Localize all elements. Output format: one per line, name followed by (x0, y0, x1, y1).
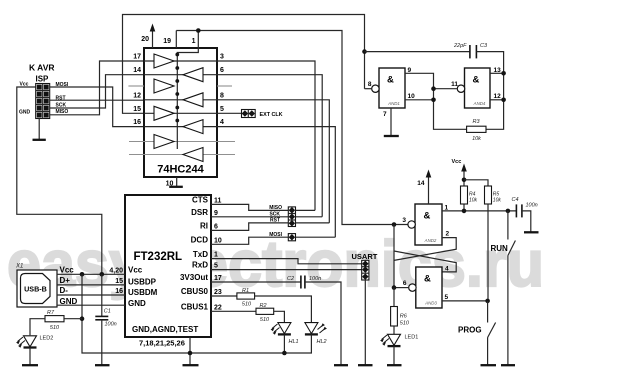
junction pin9/pin11 (431, 86, 436, 91)
pin number 17 (214, 275, 222, 282)
pin label GND (128, 299, 146, 308)
junction pin13 (501, 71, 506, 76)
pin number 6 (220, 67, 224, 74)
wire MISO jumper to pin3 riser (296, 209, 316, 211)
svg-text:RST: RST (270, 218, 280, 224)
svg-text:D-: D- (60, 286, 69, 295)
wire CBUS0 to R1 (211, 295, 237, 297)
svg-text:RUN: RUN (491, 244, 509, 253)
svg-text:5: 5 (214, 262, 218, 269)
svg-text:9: 9 (214, 210, 218, 217)
svg-text:22: 22 (214, 304, 222, 311)
label R7 (47, 310, 55, 316)
label 10k (469, 197, 478, 203)
pin label RI (200, 222, 208, 231)
svg-text:R3: R3 (472, 119, 480, 125)
wire AND3 pin6 (394, 287, 409, 289)
svg-text:10: 10 (214, 237, 222, 244)
svg-text:17: 17 (214, 275, 222, 282)
jumper EXT CLK (242, 110, 256, 118)
capacitor C2 (301, 276, 305, 289)
svg-text:GND: GND (128, 299, 146, 308)
pin number 22 (214, 304, 222, 311)
pin number 3 (402, 217, 406, 224)
wire 74HC244 row pin14-pin6 (144, 75, 322, 217)
power Vcc arrow pin14 (426, 170, 432, 205)
svg-text:Vcc: Vcc (60, 265, 75, 274)
pin number 17 (133, 54, 141, 61)
svg-text:100n: 100n (526, 202, 538, 208)
wire ISP Vcc to C1 node (17, 87, 102, 274)
wire MOSI jumper to pin4 riser (296, 236, 336, 238)
label GND,AGND,TEST (132, 325, 198, 334)
wire TxD to USART (211, 259, 362, 264)
wire FT232 gnd pin to bus and ground (183, 337, 199, 365)
svg-text:AND1: AND1 (387, 101, 400, 106)
pin number 5 (214, 262, 218, 269)
IC U1 74HC244 body (144, 48, 217, 177)
node RST label (56, 95, 66, 101)
label RUN (491, 244, 509, 253)
wire RxD to USART (211, 269, 362, 271)
junction Vcc/R7 riser (80, 272, 85, 277)
svg-text:CTS: CTS (192, 196, 209, 205)
svg-text:FT232RL: FT232RL (134, 251, 183, 263)
pin number 9 (214, 210, 218, 217)
svg-text:&: & (387, 75, 394, 86)
pin number 20 (141, 36, 149, 43)
LED HL1 (271, 323, 291, 353)
label R4 (469, 191, 476, 197)
svg-text:USBDP: USBDP (128, 277, 157, 286)
pin label D- (60, 286, 69, 295)
pin number 1 (214, 252, 218, 259)
node K AVR label (29, 63, 55, 73)
pin number 12 (133, 92, 141, 99)
junction AND2 pin3 node (392, 222, 397, 227)
label & of AND4 (473, 75, 480, 86)
pin number 8 (368, 81, 372, 88)
capacitor C1 (95, 274, 108, 365)
pin number 6 (214, 223, 218, 230)
svg-text:C3: C3 (480, 43, 488, 49)
pin number 19 (163, 38, 171, 45)
svg-text:100n: 100n (105, 322, 117, 328)
svg-text:510: 510 (242, 302, 252, 308)
pin label Vcc (60, 265, 75, 274)
label USART (352, 252, 378, 261)
wire NC row bottom1 (129, 141, 235, 143)
capacitor C3 (470, 45, 477, 58)
gate U3.3 AND3 body (409, 267, 442, 308)
svg-text:USBDM: USBDM (128, 288, 158, 297)
resistor R5 (485, 186, 492, 204)
wire pin8 node to C3 (365, 51, 470, 53)
wire ground bus bottom (82, 319, 311, 353)
wire NC row right (217, 85, 232, 87)
ground LED1 (387, 364, 402, 366)
svg-text:USART: USART (352, 252, 378, 261)
buffer A4 (154, 135, 174, 149)
pin label CBUS1 (181, 303, 209, 312)
wire USB D- to USBDM (57, 294, 125, 296)
svg-text:100n: 100n (309, 276, 321, 282)
svg-text:&: & (424, 274, 431, 285)
LED LED1 (380, 334, 400, 365)
svg-text:AND4: AND4 (473, 101, 486, 106)
wire AND2 pin2 to cross (394, 238, 456, 261)
IC U2 FT232RL body (125, 195, 211, 337)
wire NC row left (128, 85, 144, 87)
pin number 1 (445, 205, 449, 212)
wire SCK jumper to pin6 riser (296, 216, 323, 218)
svg-text:3: 3 (402, 217, 406, 224)
pin number 11 (451, 81, 458, 88)
power Vcc arrow pin20 (150, 24, 156, 49)
svg-text:C2: C2 (287, 276, 294, 282)
svg-text:5: 5 (445, 294, 449, 301)
resistor R4 (461, 186, 468, 204)
label R2 (259, 303, 266, 309)
pin number 14 (133, 67, 141, 74)
svg-text:8: 8 (220, 92, 224, 99)
wire CTS to MISO jumper (211, 204, 288, 210)
svg-text:R6: R6 (400, 314, 408, 320)
svg-text:DSR: DSR (191, 208, 208, 217)
wire ISP SCK to 74HC244 pin14 (50, 75, 144, 108)
svg-text:14: 14 (417, 180, 425, 187)
svg-text:10k: 10k (472, 136, 481, 142)
svg-text:6: 6 (220, 67, 224, 74)
svg-text:11: 11 (214, 197, 222, 204)
wire RI to RST jumper (211, 223, 288, 231)
pin number 5 (220, 106, 224, 113)
junction pin6 node (392, 285, 397, 290)
pin label CTS (192, 196, 209, 205)
label AND1 (387, 101, 400, 106)
pin number 6 (403, 280, 407, 287)
ground LED2 (22, 364, 38, 366)
svg-text:Vcc: Vcc (452, 159, 462, 165)
pin number 4 (220, 119, 224, 126)
label EXT CLK (260, 112, 283, 118)
pin number 9 (408, 67, 412, 74)
wire C3 to AND4 pin13 (476, 52, 503, 130)
wire AND3 pin5 to PROG node (442, 300, 488, 302)
label 7,18,21,25,26 (139, 339, 185, 348)
svg-text:12: 12 (133, 92, 141, 99)
wire CBUS1 to R2 (211, 310, 256, 312)
node MOSI label (269, 232, 282, 238)
svg-text:23: 23 (214, 289, 222, 296)
wire ISP MOSI to 74HC244 pin16 (50, 87, 144, 127)
buffer B3 (183, 120, 203, 134)
resistor R3 (467, 126, 486, 132)
wire USB D+ to USBDP (57, 284, 125, 286)
wire DCD to MOSI jumper (211, 237, 288, 244)
svg-text:7,18,21,25,26: 7,18,21,25,26 (139, 339, 185, 348)
pin number 10 (214, 237, 222, 244)
wire AND1 pin10 (405, 99, 434, 101)
ground AND1 pin7 (384, 108, 399, 136)
pin number 10 and ground (166, 177, 183, 188)
svg-text:EXT CLK: EXT CLK (260, 112, 283, 118)
pin label DSR (191, 208, 208, 217)
label 510 (400, 321, 410, 327)
wire pin19 stub (175, 31, 177, 49)
svg-text:RI: RI (200, 222, 208, 231)
pin number 14 (417, 180, 425, 187)
node Vcc label at ISP (20, 82, 29, 88)
wire R1 to HL2 (255, 296, 312, 322)
svg-text:11: 11 (451, 81, 458, 88)
svg-text:1: 1 (214, 252, 218, 259)
capacitor C4 (516, 204, 522, 217)
svg-text:510: 510 (260, 317, 270, 323)
wire ISP MISO to 74HC244 pin17 (50, 61, 144, 115)
wire 74HC244 row pin16-pin4 (144, 127, 335, 238)
pin number 15 (133, 106, 141, 113)
svg-text:DCD: DCD (191, 236, 209, 245)
junction RUN pin1 wire (506, 209, 511, 214)
label 510 (50, 325, 60, 331)
svg-text:LED2: LED2 (40, 336, 54, 342)
wire AND4 pin12 stub (490, 99, 504, 101)
svg-text:C1: C1 (104, 309, 111, 315)
pin label DCD (191, 236, 209, 245)
ground RUN (501, 364, 515, 366)
gate U3.2 AND2 body (408, 204, 442, 245)
svg-text:CBUS0: CBUS0 (181, 287, 209, 296)
pin number 7 (383, 111, 387, 118)
svg-text:USB-B: USB-B (24, 285, 47, 294)
junction Vcc R4/R5 (462, 178, 467, 183)
svg-text:LED1: LED1 (405, 335, 419, 341)
pin label 3V3Out (180, 273, 208, 282)
wire latch cross vertical (393, 225, 395, 288)
ground C2 (334, 364, 348, 366)
label USB-B (24, 285, 47, 294)
label AND3 (424, 301, 437, 306)
pin number 11 (214, 197, 222, 204)
svg-text:7: 7 (383, 111, 387, 118)
svg-text:3: 3 (220, 54, 224, 61)
svg-text:510: 510 (50, 325, 60, 331)
svg-text:8: 8 (368, 81, 372, 88)
svg-text:K AVR: K AVR (29, 63, 55, 73)
label C3 (480, 43, 488, 49)
svg-text:22pF: 22pF (453, 43, 467, 49)
label R6 (400, 314, 408, 320)
pin label RxD (192, 261, 208, 270)
connector X1 USB-B body (17, 270, 57, 307)
svg-text:GND: GND (19, 110, 31, 116)
svg-text:15: 15 (115, 278, 123, 285)
svg-text:4: 4 (445, 265, 449, 272)
pin label Vcc (128, 266, 143, 275)
wire USB Vcc to FT232 (57, 273, 125, 275)
svg-text:ISP: ISP (36, 75, 50, 84)
label HL1 (289, 339, 299, 345)
jumper MOSI block (288, 234, 295, 241)
pin label TxD (193, 250, 208, 259)
junction pin10/R3 (431, 98, 436, 103)
wire 74HC244 internal enable chain (175, 48, 198, 149)
switch PROG (488, 301, 496, 365)
svg-text:AND3: AND3 (424, 301, 437, 306)
label & of AND1 (387, 75, 394, 86)
pin label CBUS0 (181, 287, 209, 296)
switch RUN (508, 211, 516, 365)
power Vcc arrow main (452, 159, 467, 211)
label 100n (526, 202, 538, 208)
wire RST jumper to pin8 riser (296, 222, 330, 224)
wire DSR to SCK jumper (211, 216, 288, 218)
junction PROG pin5 (485, 299, 490, 304)
label LED2 (40, 336, 54, 342)
buffer A1 (154, 54, 174, 68)
junction Vcc/C1 riser (100, 272, 105, 277)
wire USB GND to FT232 GND (57, 304, 125, 306)
gate U3.4 AND4 body (457, 68, 490, 108)
svg-text:10: 10 (408, 93, 416, 100)
connector USART header (362, 260, 369, 280)
svg-text:&: & (424, 211, 431, 222)
svg-text:D+: D+ (60, 276, 71, 285)
svg-text:16: 16 (133, 119, 141, 126)
pin number 1 (192, 38, 196, 45)
connector ISP header (36, 84, 50, 119)
wire AND4 pin11 (434, 88, 458, 90)
label 100n (105, 322, 117, 328)
label LED1 (405, 335, 419, 341)
resistor R1 (237, 293, 255, 299)
wire 74HC244 row pin17-pin3 (144, 61, 315, 210)
label R3 (472, 119, 480, 125)
node SCK label (56, 103, 67, 109)
pin number 5 (445, 294, 449, 301)
label PROG (458, 326, 482, 335)
gate U3.1 AND1 body (372, 68, 405, 108)
svg-text:74HC244: 74HC244 (157, 164, 204, 176)
pin label GND (60, 297, 78, 306)
resistor R6 (391, 288, 398, 334)
pin number 2 (446, 231, 450, 238)
svg-text:R2: R2 (259, 303, 266, 309)
wire 74HC244 row pin15-pin5 to EXT CLK (144, 112, 242, 114)
node GND label at ISP (19, 110, 31, 116)
svg-text:X1: X1 (15, 264, 23, 270)
ground C4 (524, 231, 539, 233)
label 74HC244 (157, 164, 204, 176)
pin number 4 (445, 265, 449, 272)
wire 74HC244 row pin12-pin8 (144, 100, 329, 223)
wire R5 to pin5 node (487, 204, 489, 301)
svg-text:2: 2 (446, 231, 450, 238)
buffer B4 (183, 148, 203, 162)
node RST label (270, 218, 280, 224)
label 100n (309, 276, 321, 282)
LED LED2 (16, 336, 36, 365)
svg-text:C4: C4 (512, 197, 519, 203)
label C4 (512, 197, 519, 203)
svg-text:6: 6 (214, 223, 218, 230)
svg-text:CBUS1: CBUS1 (181, 303, 209, 312)
junction pin12 (501, 98, 506, 103)
pin number 13 (494, 67, 502, 74)
ground C1 (95, 364, 110, 366)
wire AND2 pin1 to R4/RUN/C4 (442, 210, 516, 212)
buffer B1 (183, 68, 203, 82)
pin number 8 (220, 92, 224, 99)
svg-text:5: 5 (220, 106, 224, 113)
svg-text:20: 20 (141, 36, 149, 43)
resistor R2 (256, 308, 274, 314)
svg-text:12: 12 (494, 93, 502, 100)
label 10k (472, 136, 481, 142)
svg-text:10k: 10k (469, 197, 478, 203)
connector ISP label (36, 75, 50, 84)
label R5 (493, 191, 500, 197)
node MISO label (269, 205, 282, 211)
pin number 10 (408, 93, 416, 100)
wire ISP RST to 74HC244 pin12 (50, 99, 144, 101)
svg-text:MOSI: MOSI (269, 232, 282, 238)
pin number 12 (494, 93, 502, 100)
label & of AND3 (424, 274, 431, 285)
svg-text:HL2: HL2 (317, 339, 327, 345)
junction pin1 OE (196, 28, 201, 33)
pin number 4,20 (109, 267, 123, 274)
svg-text:510: 510 (400, 321, 410, 327)
wire AND3 pin4 to cross (394, 251, 456, 272)
svg-text:PROG: PROG (458, 326, 482, 335)
pin label USBDP (128, 277, 157, 286)
pin label USBDM (128, 288, 158, 297)
svg-text:10k: 10k (493, 197, 502, 203)
wire R2 to HL1 (274, 311, 285, 322)
svg-text:&: & (473, 75, 480, 86)
wire top bus from pin15 row to oscillator (123, 15, 365, 114)
node MOSI label (56, 82, 69, 88)
ground ISP (33, 119, 46, 140)
junction R4 pin1 wire (462, 209, 467, 214)
buffer A3 (154, 106, 174, 120)
junction HL1 bus (282, 351, 287, 356)
svg-text:19: 19 (163, 38, 171, 45)
pin number 15 (115, 278, 123, 285)
wire OE bus pin19/pin1 to latch output (176, 31, 410, 225)
wire AND1 pin8 (365, 88, 373, 90)
svg-text:Vcc: Vcc (128, 266, 143, 275)
svg-text:4: 4 (220, 119, 224, 126)
svg-text:4,20: 4,20 (109, 267, 123, 274)
label AND2 (424, 238, 437, 243)
jumper MISO/SCK/RST block (288, 207, 295, 227)
label C1 (104, 309, 111, 315)
svg-text:TxD: TxD (193, 250, 208, 259)
svg-text:16: 16 (115, 288, 123, 295)
ground PROG (481, 364, 497, 366)
wire Vcc to R5 (464, 180, 488, 186)
label 10k (493, 197, 502, 203)
label & of AND2 (424, 211, 431, 222)
svg-text:17: 17 (133, 54, 141, 61)
pin number 3 (220, 54, 224, 61)
pin number 16 (133, 119, 141, 126)
label HL2 (317, 339, 327, 345)
node MISO label (56, 109, 69, 115)
